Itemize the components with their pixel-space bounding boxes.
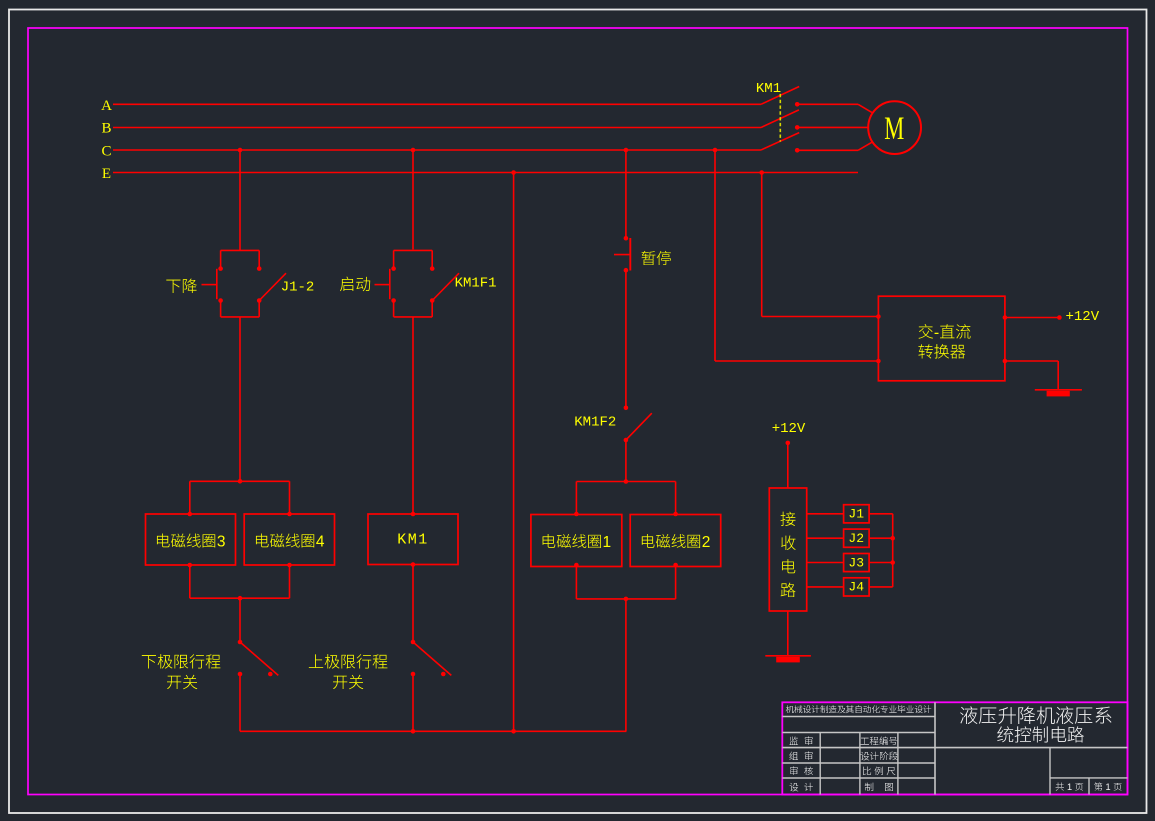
NC pushbutton stem [614,254,630,256]
wire receiver to relay J2 [807,537,844,539]
contactor KM1 pole 3 blade [761,133,799,150]
svg-text:监 审: 监 审 [789,733,813,747]
node +12V terminal dot [1057,315,1062,320]
title block right divider v [1049,748,1051,795]
wire receiver to relay J4 [807,586,844,588]
svg-text:C: C [101,144,111,160]
svg-text:+12V: +12V [1065,309,1099,325]
svg-text:共 1 页: 共 1 页 [1055,779,1084,793]
svg-text:收: 收 [780,530,796,554]
wire KM1 box to limit switch [412,565,414,643]
wire receiver to relay J3 [807,562,844,564]
relay J4 box [844,578,870,596]
junction C/branch1 [238,148,243,153]
wire relay J2 to common [869,537,893,539]
coil 电磁线圈3 box [146,514,236,565]
svg-text:电磁线圈2: 电磁线圈2 [640,530,711,552]
svg-text:制 图: 制 图 [864,779,894,793]
svg-text:B: B [101,121,111,137]
contactor KM1 pole 1 blade [761,87,799,105]
svg-text:接: 接 [780,506,796,530]
title block outer border [782,702,1127,794]
junction E/long drop [511,170,516,175]
svg-text:J4: J4 [848,580,864,595]
pushbutton switch S1 (xia jiang) with contact J1-2 [221,249,260,251]
coil group left wiring [238,479,243,484]
svg-text:路: 路 [780,577,796,601]
wire zanting to KM1F2 [625,270,627,408]
svg-text:开关: 开关 [166,669,198,693]
title block col line v3 [897,733,899,795]
wire bottom bus [240,730,626,732]
title block line h5 [782,777,935,779]
svg-text:KM1F2: KM1F2 [574,415,616,431]
wire branch5 from E to converter [761,173,763,317]
title block line h1 [782,716,935,718]
svg-text:机械设计制造及其自动化专业毕业设计: 机械设计制造及其自动化专业毕业设计 [785,704,932,716]
junction relay common/J2 [890,536,895,541]
contactor KM1 pole 3 contact dot [795,148,800,153]
wire long drop E to bottom bus [513,173,515,732]
coil KM1 box [368,514,458,565]
relay J3 box [844,554,870,572]
limit switch SQ2 (upper travel limit) [411,640,416,645]
svg-text:KM1F1: KM1F1 [455,276,497,292]
contactor KM1 pole 1 contact dot [795,102,800,107]
wire pole2 to motor [797,126,868,128]
coil 电磁线圈2 box [630,515,721,567]
junction bottom bus/long drop [511,729,516,734]
svg-text:统控制电路: 统控制电路 [997,722,1085,747]
wire relay common vertical [892,514,894,587]
svg-text:下降: 下降 [165,273,197,297]
svg-text:J1: J1 [848,507,864,522]
wire pole3 to motor [797,149,858,151]
svg-text:设计阶段: 设计阶段 [860,749,899,763]
node +12V receiver terminal dot [786,441,791,446]
svg-text:J1-2: J1-2 [281,280,315,296]
title block right line h [1050,777,1128,779]
coil KM1 box terminals [411,512,416,517]
svg-text:电磁线圈1: 电磁线圈1 [540,530,611,552]
svg-text:KM1: KM1 [756,81,781,97]
svg-text:开关: 开关 [332,669,364,693]
wire pole1 to motor [797,103,858,105]
wire relay J4 to common [869,586,893,588]
title block line h3 (full width) [782,747,1127,749]
relay J1 box [844,505,870,523]
wire relay J3 to common [869,562,893,564]
svg-text:M: M [884,111,904,147]
svg-text:电: 电 [780,553,796,577]
wire branch3 from C [625,150,627,238]
junction C/branch2 [411,148,416,153]
contactor KM1 pole 2 blade [761,110,799,128]
svg-text:设 计: 设 计 [789,779,814,793]
junction relay common/J3 [890,560,895,565]
wire branch2 from C [412,150,414,249]
ground symbol (converter) [1035,389,1082,391]
NC pushbutton bar [629,238,631,271]
wire SQ1 to bottom bus [239,674,241,731]
svg-text:比 例 尺: 比 例 尺 [862,764,896,778]
contactor KM1 pole 2 contact dot [795,125,800,130]
wire phase A bus [113,103,761,105]
svg-text:电磁线圈4: 电磁线圈4 [254,529,325,551]
title block main divider [934,702,936,794]
title block col line v2 [859,733,861,795]
wire S2 to coil KM1 [412,317,414,514]
svg-text:E: E [102,166,111,182]
wire phase C bus [113,149,761,151]
wire S1 to coil group [239,317,241,481]
svg-text:审 核: 审 核 [789,764,814,778]
converter box terminals right [1003,315,1008,320]
wire branch4 from C to converter [714,150,716,361]
junction E/branch5 [759,170,764,175]
wire receiver to relay J1 [807,513,844,515]
svg-text:组 审: 组 审 [789,749,813,763]
svg-text:转换器: 转换器 [918,338,966,362]
converter box terminals left [876,314,881,319]
wire converter +12V output [1005,317,1060,319]
wire KM1F2 to coil group [625,440,627,482]
receiver box 接收电路 [769,488,806,611]
contact KM1F2 blade [626,413,652,440]
svg-text:第 1 页: 第 1 页 [1094,779,1123,793]
title block pages divider [1088,778,1090,795]
wire receiver to ground [787,611,789,656]
coil 电磁线圈4 box [244,514,334,565]
wire right coil group to bottom bus [625,599,627,731]
limit switch SQ1 (lower travel limit) [238,640,243,645]
NC pushbutton (zan ting) contact dots [624,236,629,241]
title block col line v1 [819,733,821,795]
svg-text:+12V: +12V [772,421,806,437]
title block line h4 [782,762,935,764]
relay J2 box [844,529,870,547]
coil 电磁线圈1 box [531,515,622,567]
svg-text:电磁线圈3: 电磁线圈3 [155,529,226,551]
pushbutton switch S2 (qi dong) with contact KM1F1 [394,249,433,251]
motor M circle [868,101,921,154]
wire phase E bus [113,172,858,174]
junction C/branch4 [713,148,718,153]
junction C/branch3 [624,148,629,153]
coil group right wiring [624,479,629,484]
contact KM1F2 upper dot [624,406,629,411]
svg-text:工程编号: 工程编号 [860,733,898,747]
svg-text:KM1: KM1 [397,532,429,549]
svg-text:A: A [101,98,112,114]
svg-text:暂停: 暂停 [641,247,673,269]
contactor KM1 mechanical link (dashed) [779,94,781,142]
junction bottom bus/SQ2 [411,729,416,734]
wire relay J1 to common [869,513,893,515]
wire left coil group to limit switch [239,598,241,642]
wire phase B bus [113,127,761,129]
svg-text:J3: J3 [848,555,864,570]
title block line h2 [782,732,935,734]
wire +12V to receiver box [787,443,789,488]
ground symbol (receiver) [765,655,811,657]
svg-text:启动: 启动 [339,271,371,295]
svg-text:J2: J2 [848,531,864,546]
contact KM1F2 lower dot [624,438,629,443]
wire SQ2 to bottom bus [412,674,414,731]
wire converter to ground [1005,360,1058,362]
AC-DC converter box [878,296,1005,381]
wire branch1 from C [239,150,241,250]
